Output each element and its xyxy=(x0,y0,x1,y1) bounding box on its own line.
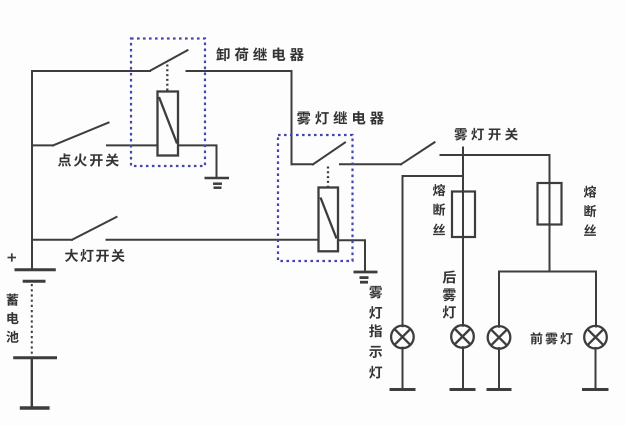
battery BT1 cell dots xyxy=(31,284,33,355)
wire S1 to K1 coil xyxy=(107,144,158,146)
label 卸荷继电器 xyxy=(216,47,304,61)
label 熔断丝 right (vertical) xyxy=(584,185,596,235)
wire lamp L3 to ground xyxy=(498,348,500,389)
lamp L2 rear fog xyxy=(451,325,474,348)
ground G2 (relay K2) xyxy=(354,272,378,282)
wire lamp L4 to ground xyxy=(595,348,597,389)
ground plate lamp L3 xyxy=(487,388,512,391)
label 雾灯指示灯 (vertical) xyxy=(369,286,382,379)
relay K1 switch blade xyxy=(150,50,188,71)
label 前雾灯 xyxy=(531,332,573,344)
label 雾灯开关 xyxy=(454,128,517,141)
relay K2 switch blade xyxy=(313,143,345,165)
label 雾灯继电器 xyxy=(297,111,384,125)
relay K2 dashed enclosure xyxy=(278,135,353,261)
battery BT1 plate short xyxy=(23,280,46,283)
switch S3 fog-lamp switch blade xyxy=(401,142,435,164)
wire fuse F1 column xyxy=(462,155,464,326)
ground G1 (relay K1) xyxy=(205,178,230,188)
label 点火开关 xyxy=(58,153,119,166)
label 蓄电池 (vertical) xyxy=(6,294,18,343)
battery BT1 end plate xyxy=(20,406,50,409)
wire front fog bar xyxy=(499,272,596,327)
lamp L1 fog indicator xyxy=(391,326,414,349)
ground plate lamp L1 xyxy=(390,388,416,391)
battery BT1 plate long lower xyxy=(13,356,57,359)
relay K2 coil xyxy=(319,188,339,252)
switch S2 headlamp blade xyxy=(72,217,117,240)
battery BT1 plate + long xyxy=(15,268,56,271)
wire K2 coil to ground xyxy=(338,240,365,270)
lamp L4 front fog right xyxy=(584,326,607,349)
label 大灯开关 xyxy=(65,249,125,262)
wire indicator branch xyxy=(403,176,464,326)
fuse F2 xyxy=(538,183,562,225)
ground plate lamp L4 xyxy=(582,388,609,391)
relay K2 armature link (dotted) xyxy=(327,167,329,188)
switch S1 ignition: left contact xyxy=(32,144,53,146)
label 后雾灯 (vertical) xyxy=(443,270,456,318)
switch S2 headlamp: left contact xyxy=(32,239,72,241)
wire K1 output to fog relay input xyxy=(187,71,292,164)
relay K2 switch left contact xyxy=(292,163,314,165)
lamp L3 front fog left xyxy=(488,326,511,349)
battery BT1 negative stem xyxy=(31,359,33,407)
fuse F1 xyxy=(452,192,475,238)
wire fuse F2 column xyxy=(549,155,551,272)
wire lamp L1 to ground xyxy=(402,348,404,389)
wire K1 coil to ground xyxy=(178,145,217,177)
wire fog switch output bus xyxy=(441,154,550,156)
ground plate lamp L2 xyxy=(450,388,476,391)
label 熔断丝 left (vertical) xyxy=(433,184,445,235)
wire lamp L2 to ground xyxy=(462,347,464,389)
node junction stub xyxy=(462,148,464,156)
relay K1 armature link (dotted) xyxy=(166,65,168,92)
wire S2 to K2 coil xyxy=(107,239,319,241)
battery plus sign xyxy=(8,253,17,261)
wire main left bus + top feed xyxy=(32,71,150,269)
wire K2 output xyxy=(340,163,401,165)
relay K1 dashed enclosure xyxy=(131,39,205,167)
switch S1 ignition blade xyxy=(53,123,109,146)
relay K1 coil xyxy=(158,92,179,156)
